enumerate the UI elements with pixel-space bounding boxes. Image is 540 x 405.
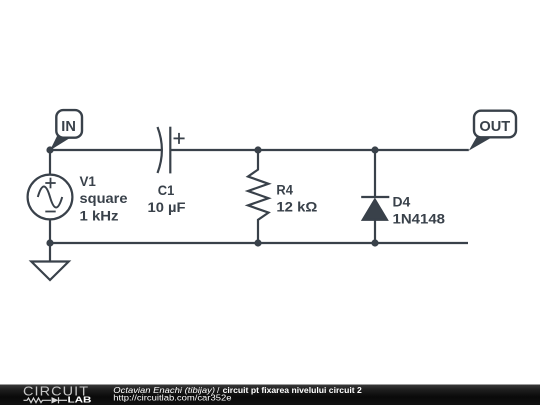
svg-text:OUT: OUT <box>479 119 510 135</box>
svg-text:circuit pt fixarea nivelului c: circuit pt fixarea nivelului circuit 2 <box>223 385 362 395</box>
svg-text:http://circuitlab.com/car352e: http://circuitlab.com/car352e <box>113 393 231 403</box>
svg-text:12 kΩ: 12 kΩ <box>276 199 317 214</box>
svg-text:R4: R4 <box>276 182 293 197</box>
svg-text:1 kHz: 1 kHz <box>80 209 119 224</box>
svg-text:1N4148: 1N4148 <box>393 211 446 226</box>
svg-text:IN: IN <box>61 119 76 135</box>
svg-text:square: square <box>80 191 128 206</box>
svg-text:10 µF: 10 µF <box>148 200 186 215</box>
svg-text:V1: V1 <box>80 174 97 189</box>
svg-text:C1: C1 <box>158 183 175 198</box>
svg-text:LAB: LAB <box>68 396 92 405</box>
svg-text:D4: D4 <box>393 195 411 210</box>
